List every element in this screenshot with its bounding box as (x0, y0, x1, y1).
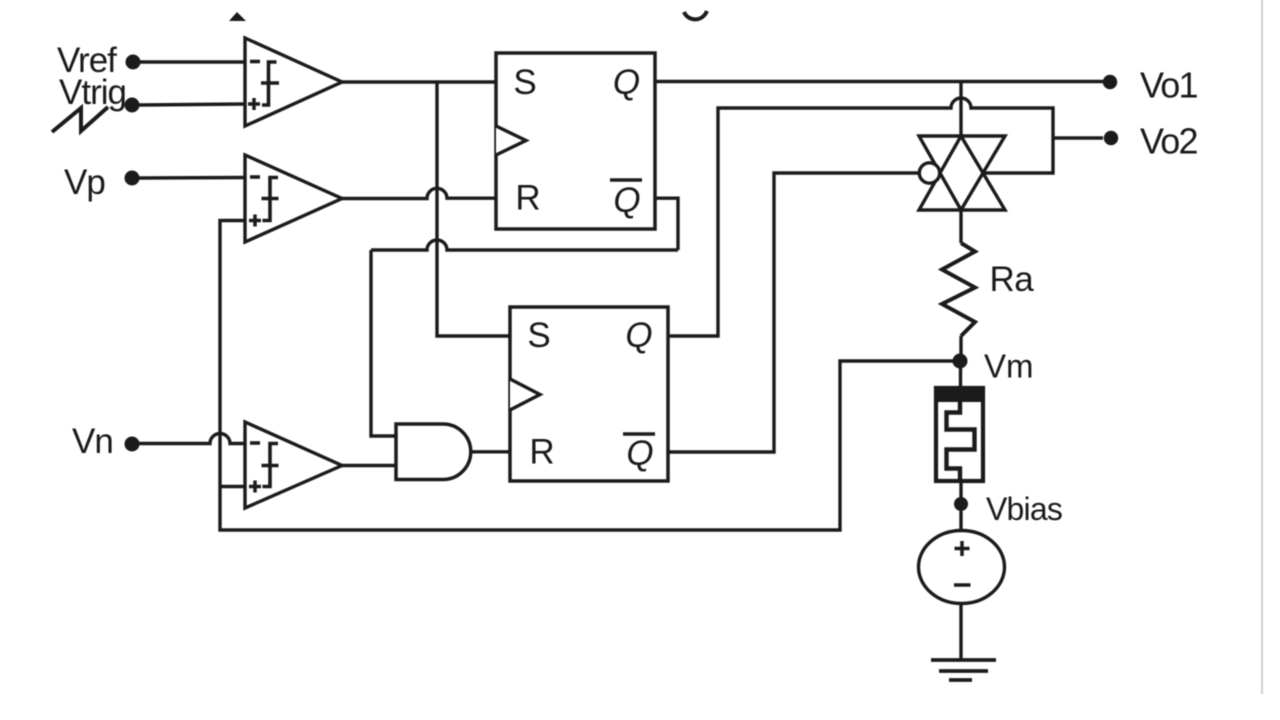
wire Vm feedback net to non-inverting inputs of A2 and A3 (220, 221, 958, 531)
wire Vref to comparator A1 inverting input (140, 60, 246, 63)
node Vbias (dot and label) (954, 497, 968, 511)
SR flip-flop FF2 (510, 307, 668, 481)
node Vn (72, 422, 140, 461)
svg-text:Q: Q (625, 316, 652, 355)
comparator A2 (Vp Schmitt comparator) (245, 155, 342, 242)
wire vertical branch from A1 output down to S of flip-flop FF2 (437, 82, 510, 336)
svg-text:Vo2: Vo2 (1140, 121, 1197, 162)
sawtooth waveform icon at Vtrig (52, 107, 108, 132)
wire memristor to node Vbias (959, 483, 962, 504)
wire Vo2 tap (1053, 136, 1103, 139)
AND gate G1 (396, 424, 471, 480)
node Vtrig (59, 73, 140, 113)
cropped title text remnant (descender curve) (684, 11, 707, 19)
SR flip-flop FF1 (496, 53, 655, 229)
svg-text:Vm: Vm (984, 348, 1034, 385)
svg-text:Q: Q (626, 434, 653, 473)
svg-text:Vn: Vn (72, 422, 113, 461)
svg-text:S: S (513, 63, 536, 102)
svg-text:S: S (527, 316, 550, 355)
svg-text:Vbias: Vbias (986, 491, 1062, 527)
wire FF1 Qbar feedback down and left to AND gate top input (hops over branch wire) (655, 198, 678, 250)
memristor M1 (934, 386, 985, 483)
svg-text:Vtrig: Vtrig (59, 73, 126, 112)
svg-text:Q: Q (613, 181, 640, 220)
wire node Vbias to voltage source (959, 511, 962, 531)
wire comparator A3 output to AND gate bottom input (342, 464, 396, 467)
wire FF2 Q output up and right to Vo2 / transmission-gate right control (hops over Vo1 riser) (668, 98, 1053, 336)
FF2 clock chevron (510, 379, 540, 410)
node Vo2 (terminal dot and label) (1104, 131, 1118, 145)
svg-text:Ra: Ra (990, 260, 1035, 299)
wire comparator A1 output to S of flip-flop FF1 (342, 80, 496, 83)
voltage source V1 (919, 531, 1005, 604)
resistor Ra (942, 243, 975, 336)
wire Vtrig to comparator A1 non-inverting input (139, 104, 246, 105)
wire voltage source to ground (959, 604, 962, 661)
svg-text:R: R (529, 433, 554, 472)
TG1 inverted control bubble (919, 163, 939, 183)
ground (931, 660, 996, 680)
wire Vp to comparator A2 inverting input (139, 176, 246, 180)
wire comparator A2 output to R of FF1 (hops over branch wire) (342, 188, 496, 198)
wire resistor Ra to node Vm (959, 336, 962, 361)
svg-text:R: R (515, 179, 540, 218)
node Vref (57, 41, 141, 80)
FF1 clock chevron (496, 126, 526, 155)
svg-text:Vo1: Vo1 (1140, 65, 1197, 106)
wire Vo1 net riser down into transmission gate (959, 82, 962, 137)
wire FF1 Q output to Vo1 terminal (655, 80, 1103, 83)
wire Vn to comparator A3 inverting input (hops over the Vm feedback riser) (139, 434, 246, 444)
wire TG1 output down to resistor Ra (959, 210, 962, 243)
node Vo1 (terminal dot and label) (1103, 75, 1117, 89)
cropped title text remnant (letter fragment) (229, 12, 246, 21)
svg-text:Vp: Vp (64, 163, 105, 202)
wire FF2 Qbar output up to transmission-gate inverted control bubble (668, 173, 919, 452)
transmission gate TG1 (919, 136, 1005, 210)
node Vm (junction dot and label) (953, 354, 968, 369)
wire AND gate output to R of FF2 (471, 450, 511, 453)
comparator A3 (Vn Schmitt comparator) (245, 422, 342, 508)
comparator A1 (Vref/Vtrig Schmitt comparator) (245, 38, 342, 126)
svg-text:Q: Q (613, 63, 640, 102)
node Vp (64, 163, 140, 202)
wire node Vm down to memristor (959, 361, 962, 386)
